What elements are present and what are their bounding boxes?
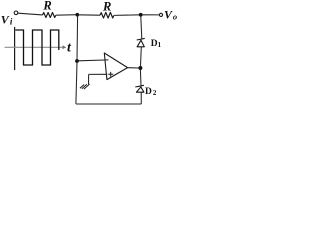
svg-text:Vi: Vi [1, 13, 13, 27]
ground [80, 84, 90, 89]
op-amp + input sign [108, 72, 113, 77]
svg-text:t: t [67, 41, 72, 56]
node A junction [76, 13, 80, 17]
wire [114, 14, 141, 17]
wire (D1 down to node C) [140, 47, 143, 66]
wire (op-amp output) [128, 67, 139, 69]
svg-text:D1: D1 [151, 39, 162, 49]
node (inverting input) junction [75, 59, 79, 63]
wire (node C down to D2) [139, 70, 142, 85]
wire (bottom rail up to D2) [140, 92, 142, 104]
waveform square wave [15, 30, 59, 65]
svg-text:R: R [42, 0, 51, 12]
wire (node B down to D1) [141, 17, 142, 39]
wire (to op-amp inverting input) [79, 59, 109, 62]
wire (node A down to inverting node) [76, 16, 79, 60]
wire [56, 14, 77, 17]
t-axis arrowhead [63, 45, 67, 49]
waveform t-axis [5, 46, 64, 48]
wire (non-inverting input) [89, 73, 108, 75]
svg-text:Vo: Vo [164, 7, 177, 21]
terminal Vi [14, 11, 18, 15]
svg-text:R: R [102, 0, 111, 14]
wire (inverting node down to bottom rail) [76, 63, 77, 104]
wire [143, 14, 160, 16]
op-amp U1 [104, 53, 127, 80]
resistor R1 [43, 13, 56, 18]
node B junction [139, 13, 143, 17]
wire [77, 14, 100, 16]
wire [18, 13, 43, 15]
wire (ground stub) [88, 75, 90, 85]
node C junction [138, 66, 142, 70]
resistor R2 [100, 12, 114, 18]
diode D1 [137, 38, 145, 46]
wire (bottom rail) [76, 103, 141, 105]
svg-text:D2: D2 [145, 87, 157, 97]
waveform y-axis [14, 27, 16, 70]
terminal Vo [159, 13, 162, 16]
diode D2 [135, 85, 144, 92]
